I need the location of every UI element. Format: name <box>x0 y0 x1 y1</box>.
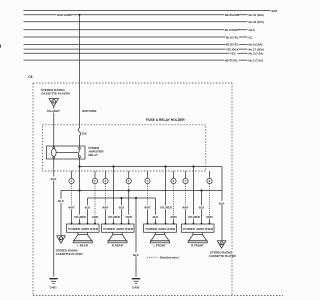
junction rail2 relay wire <box>78 189 80 191</box>
wire WHT/GRN vertical from line 2 to fuse <box>79 15 81 128</box>
node BLK/YEL label line6 <box>226 42 240 46</box>
svg-text:No.31 (40A): No.31 (40A) <box>249 13 264 17</box>
connector pin 8 <box>207 171 212 184</box>
node BLK label amp1 <box>84 205 91 209</box>
svg-text:BLK/YEL: BLK/YEL <box>226 43 239 47</box>
svg-text:BLK: BLK <box>51 177 57 181</box>
wire rail3 ground rail lower <box>88 197 156 199</box>
junction rail2 amp4 w3 <box>200 189 202 191</box>
wire BLK relay coil to ground G401 <box>53 158 55 276</box>
wire rail2 ground rail <box>61 190 222 192</box>
node YEL/WHT label <box>46 109 60 113</box>
wire YEL/BLK line 7 <box>24 48 248 50</box>
svg-text:No.9 (15A): No.9 (15A) <box>249 43 263 47</box>
svg-text:No.3 (7.5A): No.3 (7.5A) <box>249 52 264 56</box>
connector pin 2 <box>92 171 97 184</box>
svg-text:ORN: ORN <box>126 215 132 219</box>
svg-text:BAT: BAT <box>272 9 278 13</box>
wire shielded WHT amp3 w1 <box>147 184 149 224</box>
svg-text:BLK: BLK <box>219 201 225 205</box>
node No.17 (20A) label <box>249 47 264 51</box>
node GRN label amp1 <box>92 215 99 219</box>
svg-text:BLK: BLK <box>119 206 125 210</box>
connector pin 4 <box>126 171 131 184</box>
junction bus1 amp1 <box>78 165 80 167</box>
junction bus1 amp2 <box>112 165 114 167</box>
node (C) label <box>249 35 253 39</box>
amplifier A3 box <box>144 224 177 232</box>
svg-text:YEL/RED: YEL/RED <box>188 215 200 219</box>
wire shielded ORN amp4 w4 <box>209 184 211 224</box>
wire BAT feed line 1 <box>24 10 271 12</box>
dash-panel dashed border right <box>231 83 233 296</box>
node WHT label amp1 <box>68 205 75 209</box>
svg-text:BLK/YEL: BLK/YEL <box>226 35 239 39</box>
node WHT label amp2 <box>102 205 109 209</box>
svg-text:GRN: GRN <box>92 215 98 219</box>
wire shielded ORN amp3 w4 <box>173 184 175 224</box>
relay U1 power amplifier relay box <box>47 146 86 159</box>
node BLK label G402 wire <box>133 253 140 257</box>
wire rail2 drop to left triangle <box>60 191 62 236</box>
speaker R FRONT <box>188 232 207 247</box>
speaker L REAR <box>73 232 92 247</box>
wire bus1 corner down to right radio triangle <box>221 167 223 241</box>
ground G401 <box>49 279 57 290</box>
svg-text:5: 5 <box>147 179 149 183</box>
wire BLK drop to ground G402 <box>135 198 137 277</box>
svg-text:3: 3 <box>105 179 107 183</box>
svg-text:4: 4 <box>128 179 130 183</box>
svg-text:(C): (C) <box>249 35 253 39</box>
wire BLK/YEL line 5 <box>24 36 248 38</box>
svg-text:R FRONT: R FRONT <box>191 243 204 247</box>
node ORN label amp2 <box>125 215 132 219</box>
node BAT label <box>272 9 278 13</box>
amplifier A4 box <box>182 224 215 232</box>
stereo radio cassette player bottom-left label <box>56 248 83 256</box>
node WHT label amp3 <box>144 205 151 209</box>
node ORN label amp3 <box>170 215 177 219</box>
connector pin 1 <box>69 171 74 184</box>
connector pin 5 <box>145 171 150 184</box>
node No.1 (7.5A) label <box>249 58 264 62</box>
junction line2 to vertical <box>79 14 81 16</box>
junction bus1 amp3 <box>164 165 166 167</box>
svg-text:BLK: BLK <box>133 253 139 257</box>
node No.9 (15A) label <box>249 43 263 47</box>
connector T2 left radio triangle <box>57 236 66 244</box>
svg-text:WHT/GRN: WHT/GRN <box>225 13 239 17</box>
wire amp4 w3 rail2 drop <box>201 191 203 225</box>
node No.32 (15A) label <box>249 20 264 24</box>
svg-text:No.32 (15A): No.32 (15A) <box>249 20 264 24</box>
svg-text:1: 1 <box>71 179 73 183</box>
grid mark B left edge <box>0 45 1 48</box>
node C8 grid label <box>28 75 32 79</box>
wire amp4 w2 bus drop <box>193 167 195 225</box>
svg-text:(: ( <box>147 255 148 259</box>
svg-text:WHT: WHT <box>102 206 109 210</box>
svg-text:20A: 20A <box>82 132 87 136</box>
svg-text:WHT/GRN: WHT/GRN <box>82 109 96 113</box>
junction bus1 amp4 <box>192 165 194 167</box>
connector T3 right radio triangle <box>217 241 226 249</box>
dash-panel dashed border left <box>32 83 34 296</box>
svg-text:YEL/RED: YEL/RED <box>108 215 120 219</box>
svg-text:POWER AMPLIFIER: POWER AMPLIFIER <box>146 227 176 231</box>
connector pin 7 <box>183 171 188 184</box>
svg-text:8: 8 <box>209 179 211 183</box>
node BLK/YEL label line5 <box>226 35 240 39</box>
node YEL/RED label amp1 <box>74 215 87 219</box>
wire bus1 power rail <box>80 166 223 168</box>
fuse & relay holder dashed box <box>42 125 206 171</box>
wire relay contact to amp1 w2 vertical <box>79 158 81 224</box>
svg-text:7: 7 <box>185 179 187 183</box>
svg-text:RELAY: RELAY <box>89 153 98 157</box>
wire line 3 <box>24 21 248 23</box>
node WHT/GRN label mid <box>82 109 97 113</box>
wire BLK/YEL line 6 <box>24 43 248 45</box>
wire shielded WHT amp2 w1 <box>105 184 107 224</box>
wire amp2 w3 rail3 drop <box>121 198 123 224</box>
node YEL/RED label amp2 <box>108 215 121 219</box>
wire shielded GRN amp1 w4 <box>94 184 96 224</box>
node WHT/GRN left label <box>57 13 72 17</box>
svg-text:CASSETTE PLAYER: CASSETTE PLAYER <box>209 254 236 258</box>
wire BLU/WHT line 4 <box>24 29 248 31</box>
node WHT/GRN right label <box>224 13 239 17</box>
power amplifier relay label <box>89 146 104 157</box>
svg-text:CASSETTE PLAYER: CASSETTE PLAYER <box>41 92 71 96</box>
relay contact <box>57 147 81 157</box>
ground G402 <box>132 279 140 290</box>
svg-text:: Shielded wire): : Shielded wire) <box>158 255 179 259</box>
wire shielded WHT amp4 w1 <box>185 184 187 224</box>
wire WHT/YEL line 9 <box>24 59 248 61</box>
svg-text:CASSETTE PLAYER: CASSETTE PLAYER <box>56 252 83 256</box>
svg-text:R REAR: R REAR <box>112 243 123 247</box>
node BLU/WHT label <box>225 28 239 32</box>
connector T1 top radio triangle <box>49 99 59 107</box>
svg-text:POWER AMPLIFIER: POWER AMPLIFIER <box>68 227 98 231</box>
wire YEL line 8 <box>24 52 248 54</box>
node YEL/RED label amp3 <box>160 205 173 209</box>
svg-text:BLK: BLK <box>85 206 91 210</box>
node BLK label right drop <box>219 201 226 205</box>
svg-text:WHT: WHT <box>144 206 151 210</box>
svg-text:YEL: YEL <box>230 52 236 56</box>
fuse 20A on WHT/GRN wire <box>78 128 87 147</box>
node YEL label <box>230 51 238 55</box>
svg-text:C8: C8 <box>28 75 32 79</box>
node BLK label amp4 <box>198 205 205 209</box>
node YEL/RED label amp4 <box>188 215 201 219</box>
legend shielded wire <box>147 255 179 259</box>
wire YEL/WHT vertical radio to relay coil <box>53 107 55 148</box>
svg-text:L FRONT: L FRONT <box>154 243 166 247</box>
svg-text:WHT/GRN: WHT/GRN <box>57 13 71 17</box>
svg-text:2: 2 <box>94 179 96 183</box>
svg-text:BLU/WHT: BLU/WHT <box>225 28 239 32</box>
junction rail3 G402 drop <box>135 197 137 199</box>
connector pin 6 <box>171 171 176 184</box>
svg-text:G401: G401 <box>50 285 57 289</box>
svg-text:G402: G402 <box>132 285 139 289</box>
wire shielded ORN amp2 w4 <box>128 184 130 224</box>
svg-text:WHT: WHT <box>68 206 75 210</box>
svg-text:POWER AMPLIFIER: POWER AMPLIFIER <box>183 227 213 231</box>
svg-text:BLK: BLK <box>58 199 64 203</box>
speaker R REAR <box>108 232 127 247</box>
svg-text:YEL/RED: YEL/RED <box>160 206 172 210</box>
svg-text:YEL/RED: YEL/RED <box>74 215 86 219</box>
dash-panel dashed border bottom <box>33 295 283 297</box>
node BLK label amp2 <box>118 205 125 209</box>
relay coil <box>51 147 56 159</box>
svg-text:FUSE & RELAY HOLDER: FUSE & RELAY HOLDER <box>146 118 185 122</box>
wire rail3 right corner to amp3 w2 <box>155 198 157 224</box>
node BLK label amp3 <box>152 215 159 219</box>
connector pin 3 <box>103 171 108 184</box>
node G2-6 label <box>249 28 256 32</box>
svg-text:ORN: ORN <box>170 215 176 219</box>
node YEL/BLK label <box>226 47 240 51</box>
node No.3 (7.5A) label <box>249 52 264 56</box>
svg-text:WHT: WHT <box>182 206 189 210</box>
svg-text:L REAR: L REAR <box>78 243 88 247</box>
amplifier A1 box <box>67 224 100 232</box>
svg-text:BLK: BLK <box>199 206 205 210</box>
svg-text:YEL/WHT: YEL/WHT <box>47 109 61 113</box>
junction rail3 amp2 w3 <box>120 197 122 199</box>
node WHT/YEL label <box>224 58 239 62</box>
svg-text:No.1 (7.5A): No.1 (7.5A) <box>249 58 264 62</box>
svg-text:BLK: BLK <box>153 215 159 219</box>
amplifier A2 box <box>102 224 135 232</box>
svg-text:G2-6: G2-6 <box>249 28 256 32</box>
stereo radio cassette player bottom-right label <box>209 250 236 257</box>
node No.31 (40A) label <box>249 13 264 17</box>
svg-text:WHT/YEL: WHT/YEL <box>225 58 239 62</box>
dash-panel dashed border top <box>33 82 232 84</box>
fuse & relay holder label <box>146 118 185 122</box>
wire shielded WHT amp1 w1 <box>71 184 73 224</box>
junction dots amp box tops <box>71 223 211 225</box>
stereo radio cassette player top label <box>41 88 71 96</box>
junction rail2 amp2 w4 <box>128 189 130 191</box>
wire amp2 w2 bus drop <box>113 167 115 225</box>
wire amp3 w3 bus drop <box>165 167 167 225</box>
svg-text:ORN: ORN <box>206 215 212 219</box>
svg-text:6: 6 <box>173 179 175 183</box>
node ORN label amp4 <box>206 215 213 219</box>
node BLK label on coil wire <box>51 177 58 181</box>
wire WHT/GRN line 2 <box>24 14 248 16</box>
wire rail3 left corner to amp1 w3 <box>87 198 89 224</box>
svg-text:POWER AMPLIFIER: POWER AMPLIFIER <box>103 227 133 231</box>
node WHT label amp4 <box>182 205 189 209</box>
node BLK label left drop <box>58 199 65 203</box>
speaker L FRONT <box>150 232 169 247</box>
